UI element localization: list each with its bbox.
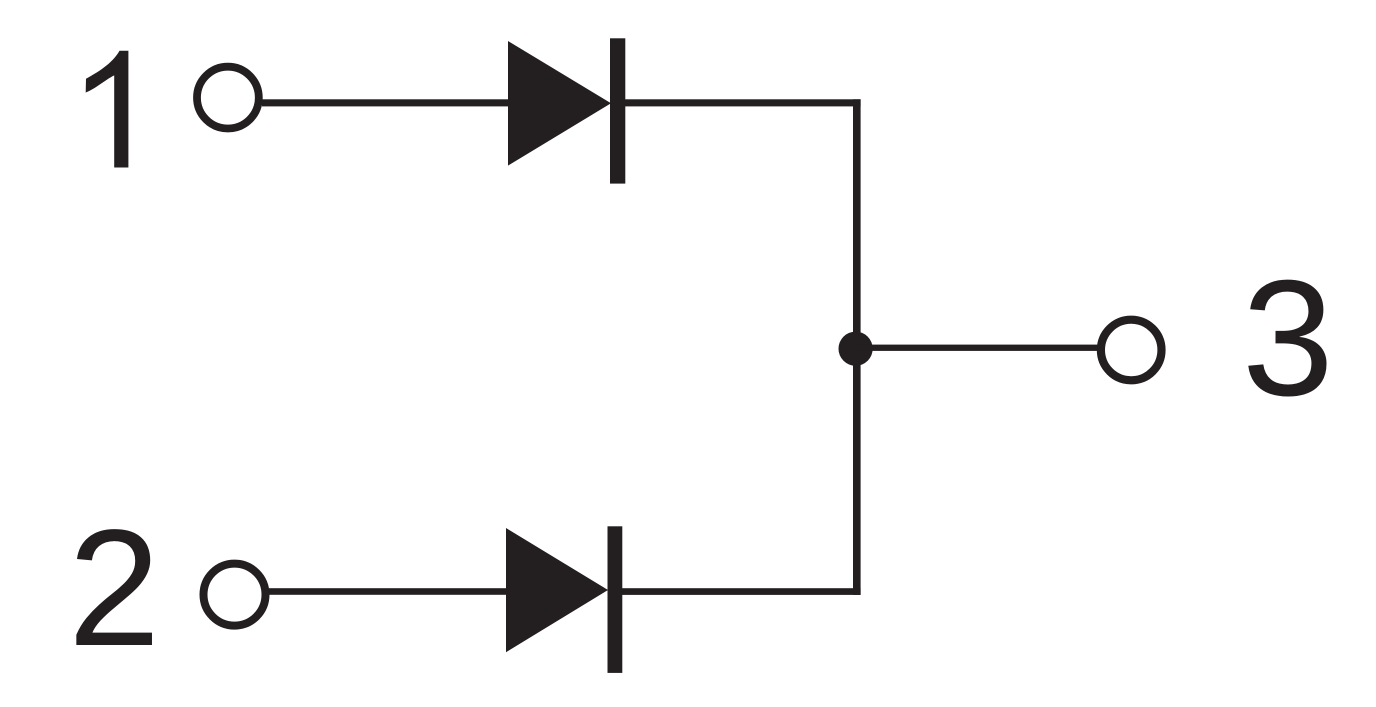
svg-text:2: 2 [68, 496, 160, 681]
svg-text:3: 3 [1242, 246, 1334, 430]
